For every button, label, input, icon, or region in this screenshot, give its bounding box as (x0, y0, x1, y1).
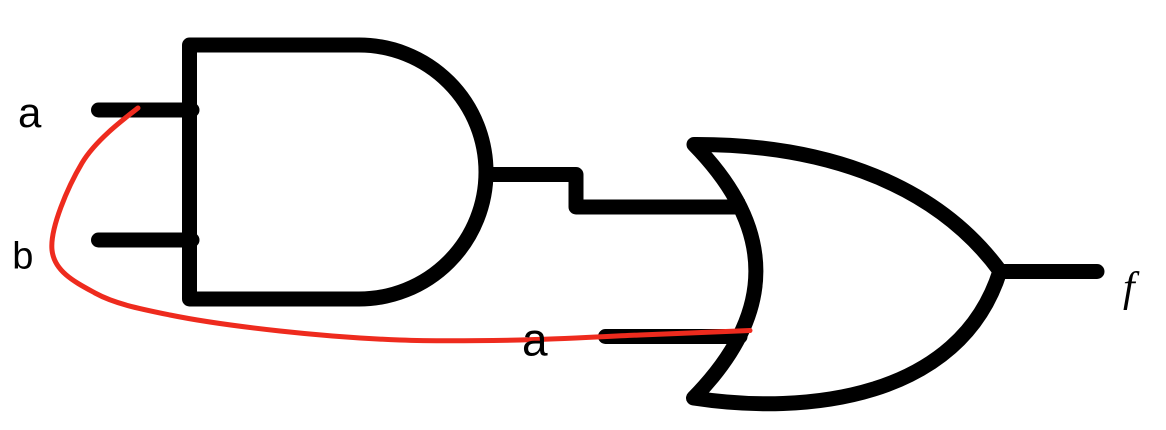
svg-text:a: a (522, 314, 548, 366)
svg-text:f: f (1123, 265, 1140, 311)
svg-text:a: a (18, 89, 42, 136)
svg-text:b: b (12, 236, 33, 278)
